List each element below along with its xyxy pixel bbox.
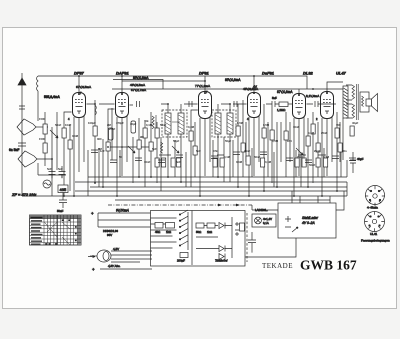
- svg-text:Fassungsbelegungen: Fassungsbelegungen: [361, 239, 390, 243]
- svg-text:77V,1,2mA: 77V,1,2mA: [195, 84, 211, 88]
- svg-text:4V 0–2A: 4V 0–2A: [302, 221, 315, 225]
- socket top: [365, 186, 385, 210]
- chassis dash-dot: [108, 204, 252, 206]
- svg-text:0,1A: 0,1A: [263, 221, 269, 225]
- vertical wires V5-V6: [308, 112, 318, 187]
- grid series caps: [137, 101, 319, 107]
- svg-text:4,5V: 4,5V: [113, 247, 119, 251]
- speaker: [346, 84, 378, 120]
- svg-text:40pF: 40pF: [130, 122, 137, 126]
- svg-text:DF91: DF91: [199, 71, 210, 76]
- svg-text:+: +: [92, 267, 95, 272]
- IF transformer T2: [212, 104, 236, 182]
- svg-text:700: 700: [336, 123, 341, 127]
- vertical wires V4-V5: [264, 104, 290, 191]
- svg-text:TEKADE: TEKADE: [262, 262, 293, 270]
- tube V5 DL92: [293, 89, 306, 196]
- accumulator box: [278, 203, 336, 238]
- svg-text:8,1V,6mA: 8,1V,6mA: [306, 94, 320, 98]
- svg-text:50pF: 50pF: [173, 139, 180, 143]
- tiny value labels texture: [39, 117, 359, 171]
- svg-text:DF97: DF97: [74, 71, 85, 76]
- switch unit box: [151, 210, 246, 266]
- svg-text:4,5V Abs.: 4,5V Abs.: [108, 264, 121, 268]
- svg-text:43V,0,5mA: 43V,0,5mA: [130, 83, 146, 87]
- low row jogs: [159, 154, 326, 156]
- svg-text:0,1M: 0,1M: [323, 155, 330, 159]
- svg-text:50nF: 50nF: [55, 123, 62, 127]
- svg-text:UL41: UL41: [370, 232, 378, 236]
- svg-text:40n: 40n: [342, 149, 347, 153]
- svg-text:0,5M: 0,5M: [272, 139, 279, 143]
- wire pent2: [37, 159, 66, 178]
- svg-text:50pF: 50pF: [225, 139, 232, 143]
- svg-text:5nF: 5nF: [47, 167, 52, 171]
- svg-text:1500: 1500: [39, 137, 45, 141]
- low row resistor boxes: [155, 156, 328, 167]
- mid caps right of box: [248, 232, 256, 253]
- matrix table: [30, 215, 82, 245]
- svg-text:30k: 30k: [144, 119, 149, 123]
- IF transformer T1: [162, 104, 187, 182]
- svg-text:85V,0,8mA: 85V,0,8mA: [133, 76, 149, 80]
- output transformer: [343, 86, 348, 160]
- tube V1 DF97: [64, 76, 92, 196]
- vertical wires V2-V3: [133, 112, 161, 191]
- svg-text:50nF: 50nF: [57, 209, 64, 213]
- svg-text:87V,0,8mA: 87V,0,8mA: [277, 90, 293, 94]
- svg-text:50nF: 50nF: [160, 123, 167, 127]
- resistor box mid B: [131, 121, 136, 133]
- vertical wires T1-T2: [191, 122, 195, 187]
- svg-text:25nF: 25nF: [109, 127, 116, 131]
- tube V3 DF91: [191, 76, 212, 196]
- svg-text:40μF: 40μF: [357, 157, 364, 161]
- svg-text:5nF: 5nF: [196, 149, 201, 153]
- svg-text:67V,0,5mA: 67V,0,5mA: [76, 85, 92, 89]
- svg-text:40μF: 40μF: [352, 121, 359, 125]
- vertical wires right of V6: [337, 112, 340, 191]
- wire y147: [108, 146, 152, 148]
- svg-text:10nF: 10nF: [293, 125, 300, 129]
- dashed vertical: [246, 213, 248, 262]
- small capacitors scattered: [49, 166, 56, 178]
- svg-text:85V,0,8mA: 85V,0,8mA: [225, 78, 241, 82]
- socket bottom: [361, 212, 390, 243]
- second bus: [112, 88, 345, 90]
- svg-text:300: 300: [97, 137, 102, 141]
- svg-text:TrickleGel: TrickleGel: [215, 259, 228, 263]
- svg-text:5nF: 5nF: [152, 147, 157, 151]
- svg-text:25nF: 25nF: [321, 131, 328, 135]
- svg-text:0,1M: 0,1M: [236, 160, 243, 164]
- right bus verticals: [330, 160, 347, 203]
- grid coupling small parts near V4: [266, 101, 279, 107]
- svg-text:ZF = 472 kHz: ZF = 472 kHz: [11, 192, 36, 197]
- svg-text:UL47: UL47: [336, 71, 347, 76]
- osc winding zigzag 1: [152, 116, 154, 129]
- top bus: [38, 76, 307, 89]
- svg-text:0,5M: 0,5M: [263, 123, 270, 127]
- plug cable: [88, 238, 296, 272]
- svg-text:DaF91: DaF91: [262, 71, 275, 76]
- svg-text:1kΩ: 1kΩ: [207, 230, 212, 234]
- svg-text:0,1M: 0,1M: [308, 131, 315, 135]
- svg-text:40Ω: 40Ω: [155, 230, 160, 234]
- potentiometer arrows: [50, 130, 58, 138]
- vertical wires V3-V4: [224, 100, 246, 187]
- wire coil top to bus: [37, 75, 39, 77]
- svg-text:47k: 47k: [213, 149, 218, 153]
- box 465: [58, 185, 68, 193]
- vertical wires V1-V2: [95, 100, 112, 187]
- tube V4 DaF91: [243, 76, 261, 196]
- svg-text:1kΩ: 1kΩ: [166, 230, 171, 234]
- svg-text:50Ω: 50Ω: [196, 230, 201, 234]
- horizontal bus lines: [88, 176, 347, 178]
- svg-text:0,1M: 0,1M: [72, 134, 79, 138]
- wires accu: [252, 203, 344, 210]
- antenna coil: [37, 76, 39, 91]
- svg-text:0,5M: 0,5M: [237, 121, 244, 125]
- svg-text:50nF: 50nF: [309, 163, 316, 167]
- wire pent1: [36, 126, 48, 128]
- vertical wires grid left section: [45, 112, 70, 196]
- small coil mid: [95, 105, 96, 115]
- svg-text:5nF: 5nF: [58, 167, 63, 171]
- tube V2 DAF91: [108, 76, 147, 196]
- resistor box mid A: [109, 128, 114, 140]
- antenna: [18, 73, 26, 196]
- svg-text:0,1M: 0,1M: [146, 123, 153, 127]
- scale lamp: [43, 180, 51, 188]
- svg-text:+: +: [91, 211, 94, 216]
- svg-text:10nF: 10nF: [144, 160, 151, 164]
- extra fill verticals: [88, 140, 341, 196]
- svg-text:25nF: 25nF: [314, 149, 321, 153]
- svg-text:1500: 1500: [39, 117, 45, 121]
- svg-text:1,2MΩ: 1,2MΩ: [277, 108, 285, 112]
- svg-text:0,1M: 0,1M: [224, 155, 231, 159]
- svg-text:465: 465: [60, 187, 67, 192]
- svg-text:50: 50: [119, 155, 122, 159]
- svg-text:25nF: 25nF: [244, 149, 251, 153]
- svg-text:StahlLader: StahlLader: [302, 216, 319, 220]
- svg-text:96V: 96V: [107, 233, 112, 237]
- svg-text:6n 5nF: 6n 5nF: [9, 148, 19, 152]
- svg-text:5nF: 5nF: [176, 160, 181, 164]
- svg-text:57V,2,7mA: 57V,2,7mA: [131, 88, 147, 92]
- capacitor ant: [18, 143, 26, 146]
- svg-text:200μF: 200μF: [177, 259, 185, 263]
- svg-text:25nF: 25nF: [297, 155, 304, 159]
- tube V6 UL47: [306, 82, 343, 196]
- frame aerial pentagon 1: [17, 119, 36, 135]
- svg-text:10nF: 10nF: [65, 123, 72, 127]
- right cap 40uF: [350, 152, 356, 173]
- svg-text:5nF: 5nF: [272, 96, 277, 100]
- svg-text:45V,0,2mA: 45V,0,2mA: [243, 87, 259, 91]
- svg-text:4–Skala: 4–Skala: [367, 206, 378, 210]
- svg-text:100pF: 100pF: [88, 121, 96, 125]
- svg-text:0,3M: 0,3M: [188, 125, 195, 129]
- svg-text:DAF91: DAF91: [116, 71, 129, 76]
- svg-text:0,1M: 0,1M: [265, 160, 272, 164]
- frame aerial pentagon 2: [18, 151, 37, 167]
- svg-text:GWB 167: GWB 167: [300, 258, 357, 273]
- svg-text:50nF: 50nF: [254, 155, 261, 159]
- svg-text:DL92: DL92: [303, 71, 314, 76]
- svg-text:1F4: 1F4: [287, 139, 292, 143]
- small resistor boxes scattered: [43, 124, 354, 155]
- heater cells unit: [252, 214, 276, 227]
- svg-text:470pF: 470pF: [116, 121, 124, 125]
- svg-text:585,0,4mA: 585,0,4mA: [44, 95, 60, 99]
- grid jogs: [87, 104, 337, 105]
- svg-text:9V,50mA: 9V,50mA: [116, 209, 129, 213]
- osc winding zigzag 2: [161, 142, 163, 153]
